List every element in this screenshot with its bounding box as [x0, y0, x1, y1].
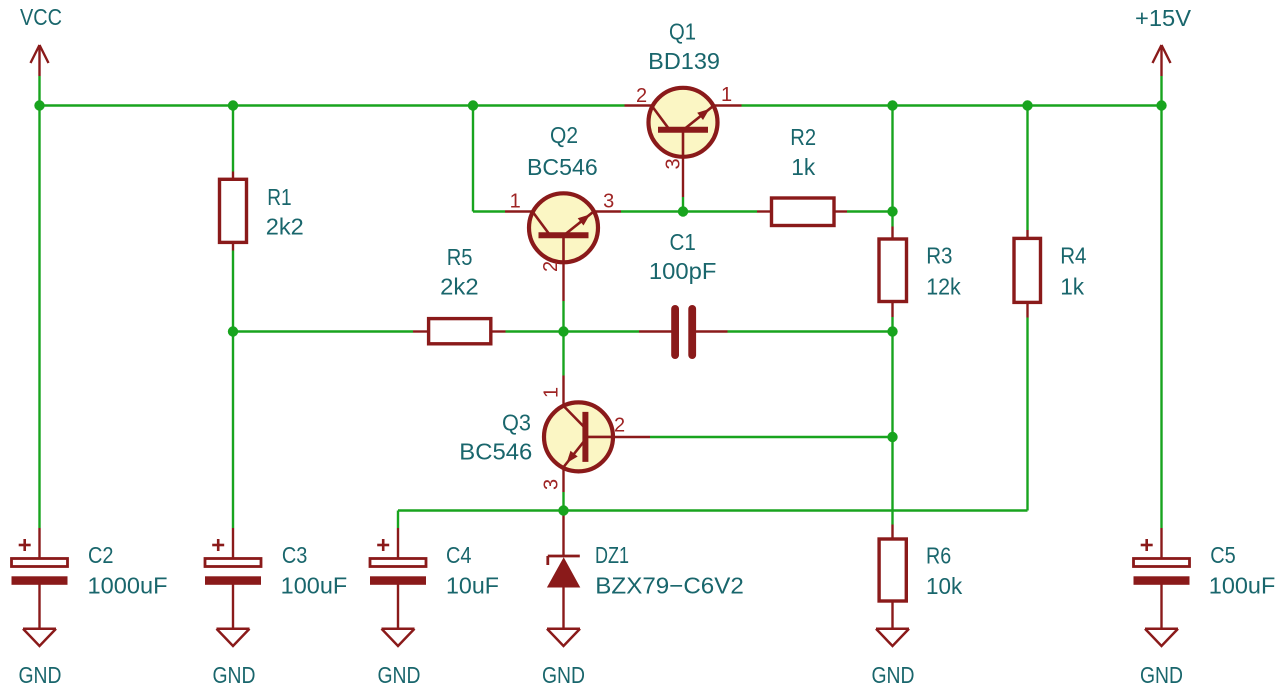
- svg-text:2: 2: [614, 415, 625, 437]
- svg-text:VCC: VCC: [20, 4, 62, 30]
- svg-text:GND: GND: [872, 662, 915, 688]
- svg-text:10k: 10k: [926, 573, 963, 599]
- svg-text:100pF: 100pF: [649, 258, 717, 284]
- svg-text:R6: R6: [926, 542, 951, 568]
- svg-text:BD139: BD139: [648, 48, 720, 74]
- svg-text:R5: R5: [447, 244, 473, 270]
- svg-text:1: 1: [510, 191, 521, 213]
- svg-text:C4: C4: [446, 542, 472, 568]
- svg-text:GND: GND: [213, 662, 256, 688]
- svg-text:1k: 1k: [1060, 273, 1084, 299]
- svg-text:100uF: 100uF: [281, 573, 348, 599]
- svg-text:BC546: BC546: [527, 154, 598, 180]
- svg-text:R4: R4: [1060, 242, 1086, 268]
- svg-text:GND: GND: [19, 662, 62, 688]
- svg-text:1: 1: [541, 387, 563, 398]
- svg-text:100uF: 100uF: [1209, 573, 1276, 599]
- svg-text:3: 3: [603, 191, 614, 213]
- svg-text:DZ1: DZ1: [595, 542, 629, 568]
- svg-text:R1: R1: [267, 184, 291, 210]
- svg-text:2k2: 2k2: [266, 213, 304, 239]
- svg-text:2: 2: [636, 85, 647, 107]
- svg-text:1000uF: 1000uF: [88, 573, 168, 599]
- svg-text:BC546: BC546: [459, 438, 532, 464]
- svg-text:3: 3: [541, 479, 563, 490]
- svg-text:C2: C2: [88, 542, 114, 568]
- svg-text:1: 1: [721, 84, 732, 106]
- svg-text:12k: 12k: [926, 273, 961, 299]
- svg-text:R3: R3: [926, 242, 952, 268]
- svg-text:GND: GND: [1140, 662, 1183, 688]
- svg-text:10uF: 10uF: [446, 573, 499, 599]
- svg-text:GND: GND: [378, 662, 421, 688]
- svg-text:Q2: Q2: [550, 122, 578, 148]
- svg-text:C5: C5: [1210, 542, 1236, 568]
- svg-text:+15V: +15V: [1135, 5, 1192, 31]
- svg-text:Q3: Q3: [502, 409, 531, 435]
- svg-text:1k: 1k: [791, 154, 815, 180]
- svg-text:2k2: 2k2: [440, 274, 478, 300]
- svg-text:GND: GND: [542, 662, 585, 688]
- svg-text:Q1: Q1: [669, 19, 696, 45]
- svg-text:BZX79−C6V2: BZX79−C6V2: [595, 573, 744, 599]
- svg-text:3: 3: [663, 159, 685, 170]
- svg-text:2: 2: [540, 261, 562, 272]
- svg-text:C3: C3: [282, 542, 308, 568]
- svg-text:C1: C1: [670, 229, 696, 255]
- svg-text:R2: R2: [790, 124, 816, 150]
